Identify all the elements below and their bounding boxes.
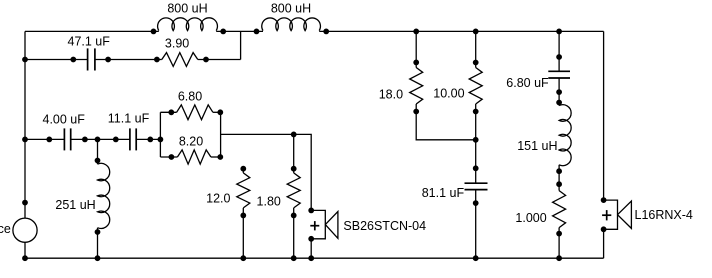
node junction left bus / C1 branch xyxy=(23,57,28,62)
svg-text:800 uH: 800 uH xyxy=(271,2,311,16)
svg-text:3.90: 3.90 xyxy=(165,37,189,51)
wire left vertical bus xyxy=(24,31,26,218)
wire C3 to parallel bracket xyxy=(137,138,161,140)
svg-text:800 uH: 800 uH xyxy=(167,2,207,16)
node junction R5 / bottom rail xyxy=(291,256,296,261)
wire top rail to C5 xyxy=(558,31,560,71)
svg-text:81.1 uF: 81.1 uF xyxy=(422,186,465,200)
resistor R7 10.00 xyxy=(469,60,482,114)
wire R4 to bottom rail xyxy=(242,215,244,258)
wire bracket tap to tweeter xyxy=(221,134,312,210)
resistor R6 18.0 xyxy=(410,60,423,114)
wire R1 to riser xyxy=(198,59,241,61)
node junction tweeter / bottom rail xyxy=(309,256,314,261)
wire bottom rail xyxy=(25,257,604,259)
inductor L4 151 uH xyxy=(557,105,571,174)
resistor R3 8.20 xyxy=(169,150,223,164)
wire L4 to R8 xyxy=(558,165,560,191)
wire source to bottom rail xyxy=(24,242,26,258)
wire top rail segment right xyxy=(319,30,603,32)
node C4 top terminal xyxy=(473,166,478,171)
node junction tweeter wire / R5 branch xyxy=(291,132,296,137)
node junction R6/R7 join xyxy=(473,137,478,142)
svg-text:4.00 uF: 4.00 uF xyxy=(43,113,86,127)
wire right vertical from top rail to woofer xyxy=(603,31,605,200)
node junction C4 / bottom rail xyxy=(473,256,478,261)
resistor R2 6.80 xyxy=(169,105,223,120)
node junction left bus / middle wire xyxy=(23,137,28,142)
resistor R5 1.80 xyxy=(287,166,300,218)
inductor L2 800 uH xyxy=(254,18,329,34)
wire woofer to bottom rail xyxy=(603,229,605,258)
capacitor C5 6.80 uF xyxy=(548,71,570,94)
wire R5 to bottom rail xyxy=(293,215,295,258)
resistor R1 3.90 xyxy=(155,53,209,67)
svg-text:11.1 uF: 11.1 uF xyxy=(108,112,150,126)
svg-text:10.00: 10.00 xyxy=(433,87,464,101)
wire left bracket vertical xyxy=(159,112,161,157)
svg-text:1.000: 1.000 xyxy=(515,211,546,225)
wire top rail segment mid xyxy=(216,30,263,32)
node junction top rail / R6 branch xyxy=(414,29,419,34)
wire R7 to C4 xyxy=(475,112,477,184)
svg-text:151 uH: 151 uH xyxy=(517,139,557,153)
wire R2 to right bracket xyxy=(213,111,221,113)
wire middle net from left bus xyxy=(25,138,64,140)
wire top rail to R6 xyxy=(415,31,417,62)
capacitor C3 11.1 uF xyxy=(113,128,152,150)
wire L3 to bottom rail xyxy=(97,228,99,258)
wire C5 to L4 xyxy=(558,78,560,105)
node junction L3 / bottom rail xyxy=(95,256,100,261)
node junction top rail / C5 branch xyxy=(557,29,562,34)
node junction at left bracket xyxy=(158,137,163,142)
node junction middle wire / L3 branch xyxy=(95,137,100,142)
wire C1 to R1 xyxy=(95,59,161,61)
node C5 top terminal xyxy=(557,55,562,60)
svg-text:1.80: 1.80 xyxy=(257,195,281,209)
woofer L16RNX-4 symbol xyxy=(601,198,631,232)
wire C4 to bottom rail xyxy=(475,190,477,258)
svg-text:47.1 uF: 47.1 uF xyxy=(68,34,111,48)
inductor L3 251 uH xyxy=(95,163,110,234)
svg-text:6.80 uF: 6.80 uF xyxy=(506,76,549,90)
node R8 top terminal xyxy=(557,182,562,187)
capacitor C2 4.00 uF xyxy=(47,128,87,150)
svg-text:18.0: 18.0 xyxy=(379,88,403,102)
inductor L1 800 uH xyxy=(151,18,226,34)
capacitor C1 47.1 uF xyxy=(71,48,111,70)
resistor R8 1.000 xyxy=(553,191,566,236)
node L3 top terminal xyxy=(95,158,100,163)
wire top rail to R7 xyxy=(475,31,477,62)
svg-text:8.20: 8.20 xyxy=(179,134,203,148)
node source bottom terminal on rail xyxy=(23,256,28,261)
wire C2 to C3 xyxy=(71,138,130,140)
wire riser branch to top rail xyxy=(240,31,242,59)
node junction R4 / bottom rail xyxy=(241,256,246,261)
wire right bracket vertical xyxy=(220,112,222,157)
wire R3 to right bracket xyxy=(211,156,221,158)
svg-text:6.80: 6.80 xyxy=(178,90,202,104)
wire left bracket bottom stub xyxy=(160,156,177,158)
svg-text:SB26STCN-04: SB26STCN-04 xyxy=(343,219,426,233)
node source top terminal xyxy=(23,200,28,205)
wire top rail segment left xyxy=(25,30,159,32)
wire tweeter to bottom rail xyxy=(310,239,312,258)
wire left bracket top stub xyxy=(160,111,176,113)
svg-text:12.0: 12.0 xyxy=(206,192,230,206)
svg-text:251 uH: 251 uH xyxy=(55,198,95,212)
node junction R8 / bottom rail xyxy=(557,256,562,261)
tweeter SB26STCN-04 symbol xyxy=(309,208,338,241)
svg-text:L16RNX-4: L16RNX-4 xyxy=(635,208,693,222)
wire R6 bottom elbow to C4 node xyxy=(416,112,476,140)
wire middle junction down to L3 xyxy=(97,139,99,164)
svg-text:Source: Source xyxy=(0,222,11,236)
wire R5 branch from tweeter wire xyxy=(293,134,295,168)
wire C1 branch left lead xyxy=(25,59,87,61)
source V1 circle xyxy=(13,218,37,242)
node junction top rail / R7 branch xyxy=(473,29,478,34)
resistor R4 12.0 xyxy=(237,166,250,218)
capacitor C4 81.1 uF xyxy=(465,183,488,205)
wire R8 to bottom rail xyxy=(558,228,560,259)
node L4 top terminal xyxy=(557,100,562,105)
